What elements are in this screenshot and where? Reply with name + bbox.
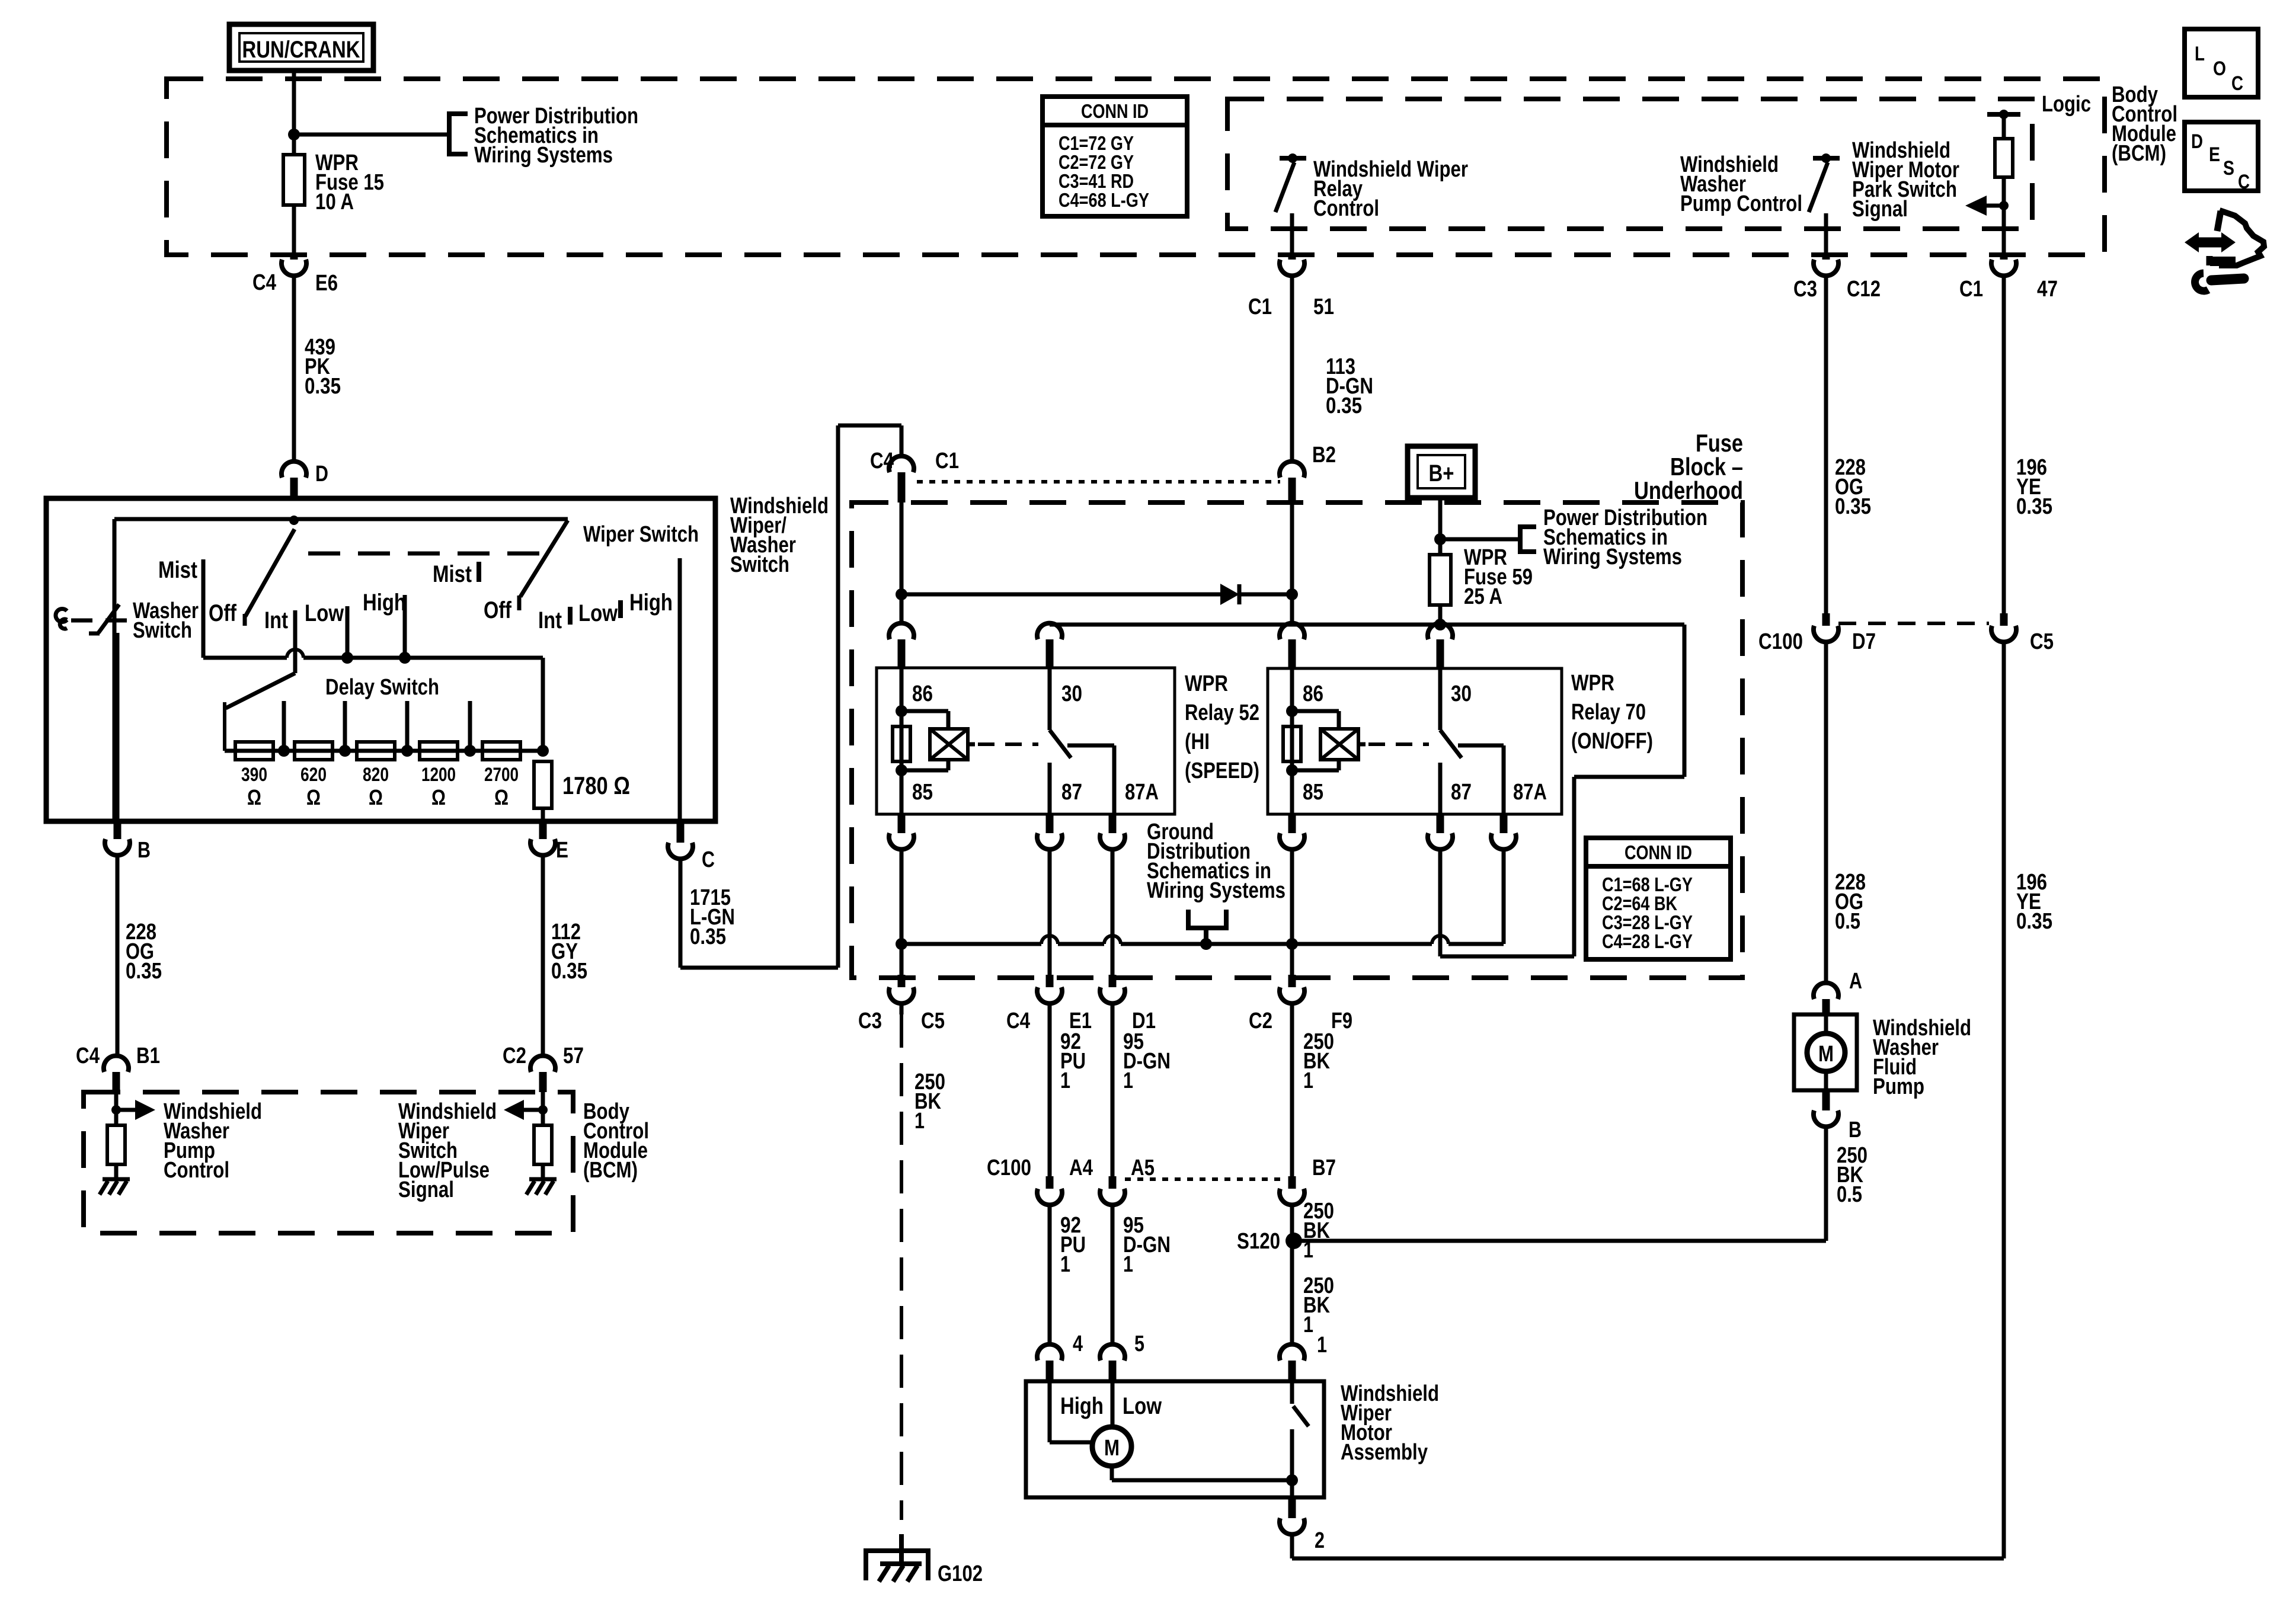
label 86 (relay70) (1303, 681, 1323, 706)
node ground bracket (1200, 938, 1212, 950)
label 112 GY 0.35 (pin E) (551, 920, 587, 984)
contact High wire (right) (678, 558, 682, 821)
node junction at fuse 15 top (288, 129, 300, 140)
label WPR Relay 52 (HI (SPEED)) (1185, 671, 1259, 783)
connector motor pin 5 (1100, 1331, 1144, 1381)
svg-text:Switch: Switch (730, 552, 789, 577)
relay70 coil-contact link dashes (1368, 742, 1429, 746)
svg-text:B2: B2 (1312, 443, 1336, 468)
wire 95 D-GN 1 (D1-A5) (1111, 1003, 1115, 1179)
wire relay52-87A down (1111, 849, 1115, 975)
svg-text:1: 1 (914, 1109, 925, 1134)
svg-text:Int: Int (538, 607, 562, 633)
wire diode line (901, 593, 1292, 597)
svg-text:Control: Control (1313, 196, 1379, 221)
label 87A (relay70) (1513, 780, 1547, 805)
pump motor M2 (1807, 1014, 1845, 1090)
svg-text:C3: C3 (1793, 277, 1817, 302)
svg-text:0.35: 0.35 (2016, 909, 2052, 934)
label G102 (938, 1561, 983, 1586)
svg-text:A4: A4 (1069, 1156, 1093, 1180)
connector C1/51 (1248, 257, 1334, 319)
connector pump A (1814, 969, 1862, 1014)
svg-text:Int: Int (264, 607, 288, 633)
svg-text:Mist: Mist (158, 557, 197, 583)
label 95 D-GN 1 (upper) (1123, 1029, 1171, 1093)
svg-text:Delay Switch: Delay Switch (325, 675, 439, 700)
wire 228 OG 0.35 (pin B) (116, 855, 120, 1056)
label 85 (relay52) (912, 780, 933, 805)
contact High line (left) (403, 595, 407, 658)
connector A5 (1100, 1156, 1155, 1205)
washer switch hook (56, 609, 67, 629)
resistor R 2700 (482, 742, 520, 809)
label 228 OG 0.5 (1835, 870, 1866, 934)
wire B2 to relay 70 coil (1290, 502, 1294, 623)
resistor washer pump control (107, 1125, 125, 1179)
connector motor pin 2 (1280, 1497, 1325, 1553)
label High (left) (363, 590, 406, 616)
svg-text:High: High (1060, 1393, 1104, 1419)
svg-text:1: 1 (1060, 1068, 1070, 1093)
svg-text:C5: C5 (921, 1009, 945, 1033)
label Low (left) (305, 600, 344, 626)
svg-text:Wiring Systems: Wiring Systems (474, 143, 613, 168)
relay52 coil-contact link dashes (978, 742, 1038, 746)
svg-text:C3: C3 (858, 1009, 882, 1033)
svg-text:Logic: Logic (2042, 92, 2091, 117)
connector D (282, 462, 328, 498)
wire to power distribution bracket (right) (1440, 537, 1520, 542)
DESC box (2185, 122, 2258, 193)
svg-text:Ω: Ω (247, 785, 261, 809)
washer switch blade (98, 604, 119, 633)
wiper switch blade (right/logical) (519, 520, 568, 610)
svg-text:O: O (2213, 57, 2226, 80)
arrow park switch signal (1965, 196, 2004, 216)
ground (wiper low/pulse) (526, 1179, 557, 1195)
node Low on bus (341, 652, 353, 664)
delay tap 4 (464, 701, 476, 757)
wire washer switch to pin B (116, 633, 120, 821)
label 196 YE 0.35 (lower right) (2016, 870, 2052, 934)
relay 52 box (877, 668, 1175, 814)
motor M1 (1092, 1427, 1131, 1466)
label Power Distribution Schematics in Wiring Systems (left) (474, 104, 638, 168)
svg-text:30: 30 (1061, 681, 1082, 706)
relay52 coil loop (901, 711, 948, 770)
BCM top dashed outline (Body Control Module) (167, 79, 2105, 255)
svg-text:0.5: 0.5 (1835, 909, 1860, 934)
node wiper switch feed (289, 516, 299, 525)
label High (right) (629, 590, 673, 616)
svg-text:1: 1 (1060, 1252, 1070, 1277)
svg-text:30: 30 (1451, 681, 1472, 706)
svg-text:86: 86 (1303, 681, 1323, 706)
svg-text:4: 4 (1073, 1331, 1083, 1356)
resistor wiper low/pulse (534, 1125, 552, 1179)
wire RUN/CRANK to fuse 15 (292, 71, 296, 155)
splice S120 (1237, 1229, 1302, 1254)
wire 92 PU 1 (E1-A4) (1048, 1003, 1052, 1179)
resistor R 620 (295, 742, 332, 809)
svg-text:2700: 2700 (484, 764, 519, 785)
svg-text:51: 51 (1313, 295, 1334, 319)
label Windshield Wiper/ Washer Switch (730, 494, 829, 577)
connector relay70 pin86 (1280, 623, 1304, 668)
wire 228 OG 0.5 (D7 to pump) (1824, 642, 1828, 983)
svg-text:Low: Low (1123, 1393, 1162, 1419)
node park switch common (1286, 1474, 1298, 1486)
washer switch link dashes (71, 619, 127, 623)
park switch blade (1292, 1381, 1309, 1497)
svg-text:C2: C2 (503, 1044, 526, 1068)
wire relay feed line (1050, 625, 1684, 956)
svg-text:M: M (1818, 1042, 1834, 1067)
svg-text:47: 47 (2037, 277, 2058, 302)
label 30 (relay52) (1061, 681, 1082, 706)
svg-text:0.35: 0.35 (305, 374, 341, 399)
node ground at relay52-85 (896, 938, 907, 950)
label Windshield Wiper Switch Low/Pulse Signal (398, 1099, 497, 1202)
delay tap 1 (278, 701, 290, 757)
svg-text:C4: C4 (1006, 1009, 1030, 1033)
label Int (right) (538, 607, 562, 633)
switch windshield wiper relay control (1275, 153, 1306, 257)
contact Int line (left) (293, 610, 298, 673)
label Low (motor) (1123, 1393, 1162, 1419)
connector C100/D7 (1758, 613, 1876, 654)
svg-text:C100: C100 (1758, 629, 1803, 654)
svg-text:S120: S120 (1237, 1229, 1280, 1254)
svg-text:Off: Off (484, 597, 512, 623)
relay70 coil loop (1292, 711, 1339, 770)
svg-text:D: D (2191, 130, 2203, 153)
CONN ID table (fuse block) (1586, 838, 1731, 959)
svg-text:M: M (1104, 1436, 1120, 1461)
svg-text:C: C (702, 847, 715, 872)
connector relay52 pin87A bottom (1100, 814, 1125, 849)
wire 250 BK 1 (S120-1) (1290, 1241, 1294, 1345)
label Off (left) (209, 600, 237, 626)
hop ground over relay70-87 (1432, 936, 1448, 944)
label Mist (right) (433, 561, 472, 587)
wire relay70-87A down (1502, 849, 1506, 944)
svg-text:B1: B1 (136, 1044, 160, 1068)
svg-text:S: S (2223, 157, 2234, 180)
svg-text:820: 820 (363, 764, 389, 785)
svg-text:Wiring Systems: Wiring Systems (1147, 878, 1285, 903)
svg-text:1200: 1200 (421, 764, 456, 785)
relay70 coil wire (1290, 668, 1294, 814)
mechanical link dashes (switch) (308, 552, 557, 556)
hop bus over Int (287, 649, 303, 658)
svg-text:10 A: 10 A (315, 190, 354, 215)
label Washer Switch (133, 598, 199, 643)
label WPR Relay 70 (ON/OFF) (1571, 671, 1653, 754)
label High (motor) (1060, 1393, 1104, 1419)
svg-text:0.5: 0.5 (1837, 1182, 1862, 1207)
svg-text:Relay 52: Relay 52 (1185, 700, 1259, 725)
svg-text:1: 1 (1303, 1313, 1313, 1337)
svg-text:87A: 87A (1125, 780, 1159, 805)
relay52 solenoid X box (930, 729, 975, 760)
svg-text:CONN ID: CONN ID (1625, 841, 1692, 863)
svg-text:(HI: (HI (1185, 729, 1210, 754)
label Low (right) (578, 600, 618, 626)
svg-text:Pump Control: Pump Control (1680, 191, 1802, 216)
svg-text:87A: 87A (1513, 780, 1547, 805)
wire motor low (1111, 1381, 1115, 1427)
node relay70 coil bottom (1286, 764, 1298, 776)
Fuse Block - Underhood dashed outline (852, 502, 1742, 978)
connector C1/47 (1959, 257, 2058, 302)
wiper switch inner top line (114, 519, 568, 821)
relay52 pin30 wire (1048, 668, 1052, 730)
label 250 BK 1 (S120-1) (1303, 1273, 1334, 1337)
wire motor M to park (1112, 1466, 1292, 1480)
fuse F15 WPR Fuse 15 10A (283, 155, 305, 255)
relay52 coil resistor (893, 726, 910, 761)
node diode line left (896, 588, 907, 600)
svg-text:Control: Control (164, 1158, 229, 1183)
svg-text:87: 87 (1451, 780, 1472, 805)
node wiper low/pulse (538, 1105, 548, 1115)
node relay70 coil top (1286, 705, 1298, 717)
connector C5 (1991, 613, 2054, 654)
resistor R 1780 (534, 761, 630, 821)
label Off (right) (484, 597, 512, 623)
label 228 OG 0.35 (upper right) (1835, 455, 1871, 519)
node fuse59 to feed line (1434, 619, 1446, 630)
connector C4/C1 (fuse block) (870, 449, 959, 502)
connector B (105, 821, 151, 863)
svg-text:Ω: Ω (369, 785, 383, 809)
label 439 PK 0.35 (305, 335, 341, 399)
svg-text:C4: C4 (252, 270, 276, 295)
svg-text:High: High (363, 590, 406, 616)
svg-text:C100: C100 (987, 1156, 1031, 1180)
connector pump B (1814, 1090, 1862, 1142)
connector C3/C5 (858, 975, 945, 1033)
svg-text:1: 1 (1123, 1068, 1133, 1093)
node fuse59 bracket junction (1434, 533, 1446, 545)
contact tick Mist (right) (477, 562, 481, 582)
wire 113 D-GN 0.35 (1290, 276, 1294, 462)
diode CR1 (1220, 584, 1239, 605)
connector D1 (1100, 975, 1156, 1033)
wire relay52-87 down (1048, 849, 1052, 975)
label Power Distribution Schematics in Wiring Systems (right) (1543, 505, 1707, 569)
label 86 (relay52) (912, 681, 933, 706)
wire motor high (1050, 1381, 1093, 1442)
wiper motor assembly box (1026, 1381, 1324, 1497)
BCM inner dashed outline (relay/washer/park logic) (1227, 99, 2032, 229)
wire B+ to fuse 59 (1438, 498, 1443, 555)
label 113 D-GN 0.35 (1326, 354, 1373, 418)
label Logic (2042, 92, 2091, 117)
svg-text:85: 85 (912, 780, 933, 805)
svg-text:D7: D7 (1852, 629, 1876, 654)
svg-text:C5: C5 (2030, 629, 2054, 654)
relay70 solenoid X box (1320, 729, 1366, 760)
icon arrow-car-wrench (2185, 210, 2264, 291)
bracket power distribution ref (left) (449, 114, 468, 154)
svg-text:B: B (1849, 1118, 1862, 1142)
washer fluid pump box (1794, 1014, 1857, 1090)
BCM bottom dashed outline (84, 1092, 573, 1233)
svg-text:5: 5 (1134, 1331, 1144, 1356)
label 250 BK 1 (B7-S120) (1303, 1199, 1334, 1263)
washer switch contact tick (89, 632, 100, 636)
svg-text:E6: E6 (315, 271, 338, 296)
ground G102 symbol (864, 1534, 930, 1582)
svg-text:L: L (2195, 43, 2205, 65)
svg-text:High: High (629, 590, 673, 616)
label Windshield Wiper Motor Assembly (1341, 1381, 1439, 1465)
relay70 87A link (1458, 745, 1504, 814)
svg-text:WPR: WPR (1571, 671, 1614, 696)
wire 250 BK 1 dashed to G102 (900, 1003, 904, 1520)
wire ground collector line (901, 942, 1504, 946)
svg-text:A5: A5 (1131, 1156, 1155, 1180)
svg-text:Pump: Pump (1873, 1074, 1924, 1099)
label Delay Switch (325, 675, 439, 700)
svg-text:CONN ID: CONN ID (1081, 100, 1149, 122)
label 30 (relay70) (1451, 681, 1472, 706)
connector relay52 pin85 bottom (889, 814, 914, 849)
label 87A (relay52) (1125, 780, 1159, 805)
connector C3/C12 (1793, 257, 1881, 302)
fuse F59 WPR Fuse 59 25A (1430, 555, 1451, 623)
svg-text:C: C (2231, 72, 2243, 95)
wire 439 PK 0.35 (292, 276, 296, 462)
relay70 switch blade (1440, 730, 1462, 758)
svg-text:C1: C1 (1959, 277, 1983, 302)
svg-text:A: A (1849, 969, 1862, 994)
label Ground Distribution Schematics in Wiring Systems (1147, 820, 1285, 903)
relay52 87A link (1067, 745, 1114, 814)
svg-text:WPR: WPR (1185, 671, 1228, 696)
label 228 OG 0.35 (pin B) (126, 920, 162, 984)
label Wiper Switch (583, 522, 699, 547)
svg-text:Ω: Ω (494, 785, 509, 809)
svg-text:25 A: 25 A (1464, 584, 1502, 609)
wire 92 PU 1 (A4-4) (1048, 1205, 1052, 1345)
svg-text:0.35: 0.35 (551, 959, 587, 984)
svg-text:(ON/OFF): (ON/OFF) (1571, 729, 1653, 754)
wire 112 GY 0.35 (pin E) (541, 855, 545, 1056)
svg-text:Assembly: Assembly (1341, 1440, 1428, 1465)
node park switch arrow junction (1999, 201, 2009, 210)
delay chain line (225, 749, 543, 753)
wire relay70-87 down (1438, 849, 1443, 956)
svg-text:0.35: 0.35 (690, 924, 726, 949)
label Windshield Washer Pump Control (top) (1680, 152, 1802, 216)
svg-text:(BCM): (BCM) (583, 1158, 638, 1183)
svg-text:Mist: Mist (433, 561, 472, 587)
relay70 pin30 wire (1438, 668, 1443, 730)
connector C2/F9 (1249, 975, 1352, 1033)
label 87 (relay52) (1061, 780, 1082, 805)
node relay52 coil top (896, 705, 907, 717)
connector C (668, 824, 715, 872)
connector relay52 pin86 (889, 623, 914, 668)
relay52 pin87 wire (1048, 763, 1052, 814)
dotted wire C1 to B2 (917, 480, 1280, 484)
label Fuse Block - Underhood (1634, 429, 1743, 504)
resistor R 1200 (420, 742, 458, 809)
node washer pump control (111, 1105, 121, 1115)
relay52 switch blade (1050, 730, 1071, 758)
label Windshield Washer Pump Control (BCM) (164, 1099, 262, 1183)
label 250 BK 1 (ground wire) (914, 1070, 945, 1134)
connector C100/A4 (987, 1156, 1093, 1205)
label Int (left) (264, 607, 288, 633)
svg-text:C4=68 L-GY: C4=68 L-GY (1059, 189, 1149, 211)
wire 250 BK 1 (F9-B7) (1290, 1003, 1294, 1179)
svg-text:Signal: Signal (398, 1177, 454, 1202)
hop ground over relay52-87 (1041, 936, 1058, 944)
svg-text:Low: Low (305, 600, 344, 626)
resistor R 390 (235, 742, 273, 809)
node ground at relay70-85 (1286, 938, 1298, 950)
svg-text:0.35: 0.35 (126, 959, 162, 984)
connector B7 (1280, 1156, 1336, 1205)
label Windshield Washer Fluid Pump (1873, 1016, 1971, 1099)
svg-text:C4=28 L-GY: C4=28 L-GY (1602, 930, 1693, 952)
delay tap 2 (339, 701, 351, 757)
node diode line right (1286, 588, 1298, 600)
svg-text:Underhood: Underhood (1634, 476, 1743, 504)
connector C4/E6 (252, 255, 338, 296)
relay70 coil resistor (1283, 726, 1301, 761)
wire pin 2 to right riser (1292, 1534, 2003, 1558)
LOC box (2185, 29, 2258, 97)
CONN ID table (BCM) (1043, 97, 1187, 216)
ground (washer pump control) (100, 1179, 130, 1195)
svg-text:390: 390 (241, 764, 267, 785)
svg-text:1: 1 (1317, 1333, 1327, 1358)
svg-text:C4: C4 (870, 449, 894, 473)
svg-text:F9: F9 (1331, 1009, 1352, 1033)
park switch pull-up resistor (1987, 110, 2020, 257)
svg-text:C: C (2238, 171, 2250, 193)
connector relay70 pin85 bottom (1280, 814, 1304, 849)
svg-text:1: 1 (1303, 1068, 1313, 1093)
label 250 BK 1 (F9-B7) (1303, 1029, 1334, 1093)
node High on bus (399, 652, 411, 664)
svg-text:57: 57 (563, 1044, 584, 1068)
svg-text:(SPEED): (SPEED) (1185, 758, 1259, 783)
delay tap 3 (401, 701, 413, 757)
wiper switch blade (left) (245, 529, 295, 626)
svg-text:C2: C2 (1249, 1009, 1272, 1033)
label WPR Fuse 59 25 A (1464, 545, 1533, 609)
label 95 D-GN 1 (lower) (1123, 1213, 1171, 1277)
svg-text:B+: B+ (1429, 460, 1454, 486)
connector motor pin 1 (1280, 1333, 1327, 1381)
relay52 coil wire (900, 668, 904, 814)
label Windshield Wiper Relay Control (1313, 157, 1468, 221)
svg-text:0.35: 0.35 (1326, 393, 1362, 418)
arrow wiper switch low/pulse (504, 1092, 543, 1125)
relay70 pin87 wire (1438, 763, 1443, 814)
relay 70 box (1268, 668, 1562, 814)
svg-text:RUN/CRANK: RUN/CRANK (242, 37, 360, 63)
svg-text:Relay 70: Relay 70 (1571, 700, 1646, 725)
connector B2 (1280, 443, 1336, 502)
